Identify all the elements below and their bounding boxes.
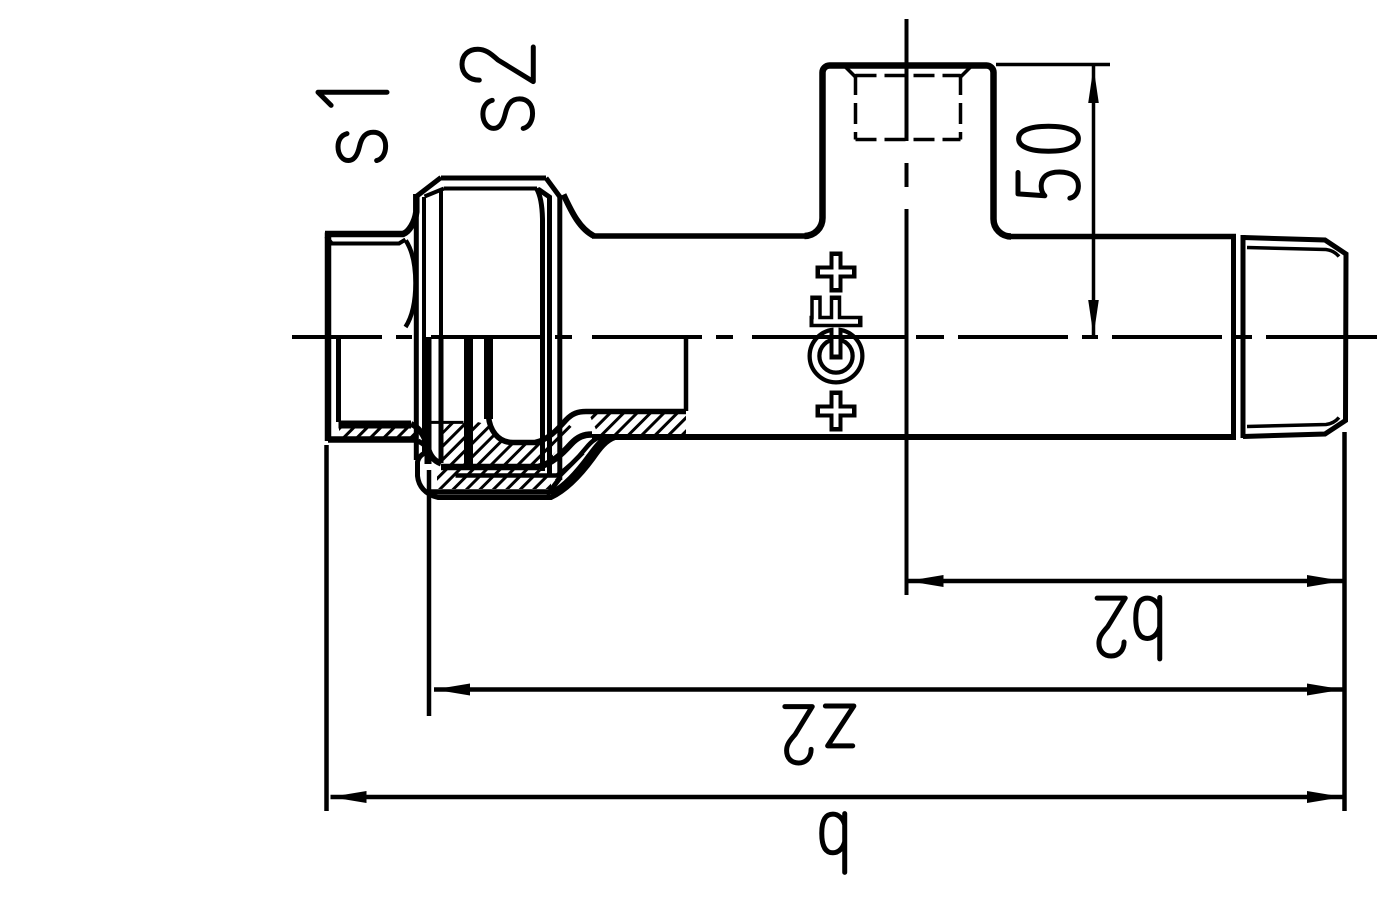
logo F xyxy=(810,296,863,324)
hatch: wedge under seat xyxy=(438,421,553,464)
section: nut pocket wall xyxy=(418,438,616,498)
logo G xyxy=(815,327,858,378)
section: nut thread edge xyxy=(425,337,432,464)
label b xyxy=(822,814,845,873)
label 50 xyxy=(1018,126,1078,198)
logo cross top xyxy=(816,252,857,293)
dimension b: dim line xyxy=(331,795,1344,800)
centerline horizontal (main axis) xyxy=(292,335,1377,339)
section: body strip top xyxy=(684,337,689,411)
branch outlet outline xyxy=(805,66,1012,237)
label s1 xyxy=(318,92,387,160)
dimension 50: dim line xyxy=(1092,66,1096,337)
right spigot base double line xyxy=(1234,235,1244,438)
dimension b: extension lines xyxy=(324,445,329,811)
section: nut bore line xyxy=(441,435,592,468)
hatch: rising band xyxy=(553,451,590,488)
logo cross bottom xyxy=(816,391,857,432)
dimension z2: extension line xyxy=(427,470,432,716)
transition curve nut to barrel (top) xyxy=(564,195,595,237)
hatch: band under nut bore xyxy=(437,470,551,489)
label z2 xyxy=(785,706,854,763)
section: spigot end faces xyxy=(469,337,489,465)
section: socket bore fillet and rising wall xyxy=(489,412,687,443)
label b2 xyxy=(1097,598,1160,659)
label s2 xyxy=(462,47,533,128)
centerline horizontal redraw over logo xyxy=(752,335,907,339)
centerline vertical (branch axis) xyxy=(905,19,909,595)
barrel bottom edge xyxy=(592,434,1236,440)
GF logo xyxy=(810,252,863,432)
hatch: body strip xyxy=(589,414,686,434)
dimension 50: extension line xyxy=(996,63,1110,67)
hatch: insert wall strip xyxy=(339,429,417,437)
hex s1 face corner arc xyxy=(406,241,416,328)
dimension z2: dim line xyxy=(434,687,1343,692)
barrel top edge right of branch xyxy=(1011,234,1236,240)
hatch: rising band 2 xyxy=(541,422,575,456)
dimension 50: arrows xyxy=(1088,67,1099,103)
hex s1 face edge line xyxy=(326,237,406,244)
union nut s2 inner face lines xyxy=(424,189,550,478)
section: pocket top line xyxy=(431,438,606,492)
section: insert bore line xyxy=(336,337,341,422)
union nut s2 outline xyxy=(416,178,560,496)
section: seat line xyxy=(424,421,464,424)
hole chamfer dashes xyxy=(846,67,971,78)
hex s1 outline xyxy=(325,194,418,441)
right spigot root lines xyxy=(1247,248,1339,427)
dimension b2: dim line xyxy=(908,579,1344,584)
section: mid rising line xyxy=(456,437,602,476)
hidden tapped hole (dashed) xyxy=(856,74,961,140)
right spigot thread outline xyxy=(1243,238,1346,437)
section: insert bore step curve xyxy=(411,424,441,464)
barrel top edge left of branch xyxy=(592,233,805,239)
